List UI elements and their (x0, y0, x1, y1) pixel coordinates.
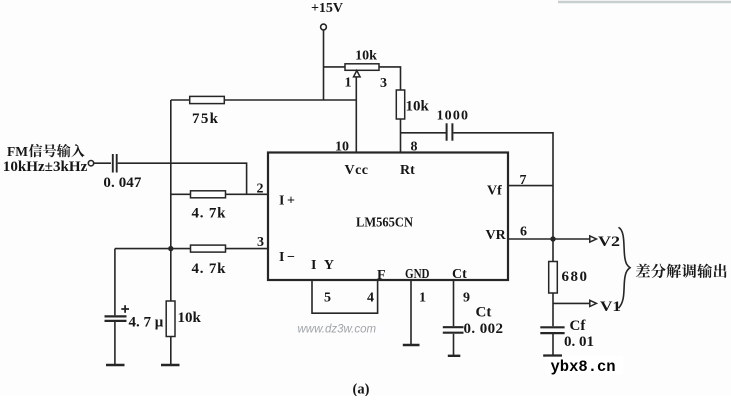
svg-text:4. 7k: 4. 7k (192, 261, 227, 277)
svg-text:Vcc: Vcc (345, 163, 369, 178)
svg-text:V2: V2 (598, 234, 620, 250)
wire pot wiper to pin 10 Vcc (355, 77, 357, 153)
wire bias node to pin 2 (171, 193, 268, 195)
wire rail left of 75k (171, 99, 190, 101)
svg-text:9: 9 (463, 291, 470, 306)
input terminal (88, 161, 93, 166)
wire R2 to pin 8 Rt (400, 119, 402, 153)
potentiometer RP wiper arrow (354, 71, 361, 77)
arrow V2 (590, 236, 597, 242)
resistor R6 680 body (549, 262, 558, 294)
node junction bias/pin3 (168, 246, 173, 251)
wire +15V to pot pin1 (324, 66, 346, 68)
ground (C4) (543, 354, 562, 356)
svg-text:Ct: Ct (476, 305, 492, 321)
capacitor C3 Ct plates (443, 327, 464, 333)
ground (C5) (106, 364, 125, 366)
svg-text:1: 1 (419, 291, 426, 306)
wire pin8 node to C2 (401, 132, 447, 134)
svg-text:0. 047: 0. 047 (103, 175, 141, 191)
resistor R1 75k body (190, 96, 225, 103)
svg-text:0. 01: 0. 01 (564, 334, 594, 350)
capacitor C4 Cf plates (540, 327, 564, 333)
wire R6 to V1 node (552, 293, 554, 326)
svg-text:10: 10 (335, 140, 349, 155)
svg-text:1000: 1000 (437, 109, 469, 124)
svg-text:3: 3 (380, 76, 387, 91)
wire pin6 node to R6 (552, 239, 554, 262)
svg-text:5: 5 (324, 291, 331, 306)
op-amp/PLL U1 LM565CN body (268, 153, 508, 281)
+15V terminal (321, 24, 327, 30)
svg-text:8: 8 (411, 140, 418, 155)
wire pin5-pin4 strap (312, 280, 378, 313)
ground (C3) (448, 355, 461, 357)
wire +15V rail to wiper node (224, 99, 356, 101)
svg-text:75k: 75k (192, 111, 219, 127)
svg-text:Vf: Vf (487, 184, 502, 199)
wire bias vertical line (170, 100, 172, 301)
capacitor C2 1000 plates (447, 123, 453, 140)
wire pin3 node down to C5 (114, 249, 116, 316)
svg-text:1: 1 (345, 76, 352, 91)
svg-text:Cf: Cf (570, 318, 587, 334)
page border artifact top-right (558, 1, 731, 3)
svg-text:I−: I− (279, 250, 295, 265)
svg-text:10k: 10k (406, 99, 430, 115)
svg-text:10k: 10k (355, 49, 377, 64)
svg-text:VR: VR (486, 228, 507, 243)
wire V1 branch (553, 302, 590, 304)
svg-text:6: 6 (520, 225, 527, 240)
node junction pin6 (550, 236, 555, 241)
svg-text:3: 3 (257, 235, 264, 250)
svg-text:ybx8.cn: ybx8.cn (551, 358, 616, 376)
svg-text:4. 7k: 4. 7k (192, 206, 227, 222)
svg-text:10kHz±3kHz: 10kHz±3kHz (3, 159, 88, 175)
wire C4 to ground (552, 334, 554, 355)
wire C5 to ground (114, 322, 116, 365)
wire pin9 to C3 (453, 280, 455, 326)
capacitor C1 0.047 plates (113, 154, 117, 173)
wire C1 to pin 2 elbow (118, 163, 247, 194)
svg-text:(a): (a) (353, 382, 370, 397)
watermark ybx8.cn (545, 357, 623, 376)
svg-text:680: 680 (562, 269, 588, 285)
ground (pin1) (403, 344, 420, 346)
label 差分解调输出 (636, 264, 727, 278)
wire C2 to Vf column (453, 133, 553, 239)
FM input label line1 (7, 144, 85, 159)
svg-text:FM: FM (7, 144, 28, 159)
resistor R2 10k body (396, 90, 404, 119)
potentiometer RP 10k body (345, 64, 379, 71)
resistor R5 10k body (166, 301, 175, 337)
capacitor C5 4.7u plates (105, 316, 127, 321)
svg-text:Ct: Ct (452, 267, 467, 282)
resistor R4 4.7k body (191, 245, 226, 252)
arrow V1 (590, 300, 597, 306)
wire pin6 VR to V2 (508, 238, 590, 240)
wire R5 to ground (170, 337, 172, 365)
svg-text:GND: GND (405, 266, 430, 281)
ground (R5) (161, 364, 180, 366)
wire pin7 Vf to column (508, 185, 553, 187)
svg-text:Rt: Rt (400, 163, 415, 178)
svg-text:10k: 10k (178, 310, 202, 326)
svg-text:LM565CN: LM565CN (356, 216, 413, 231)
brace differential outputs (619, 227, 631, 308)
wire pot pin3 to R2 (379, 67, 401, 90)
svg-text:www.dz3w.com: www.dz3w.com (298, 324, 377, 336)
svg-text:2: 2 (257, 182, 264, 197)
wire +15V down (323, 30, 325, 100)
wire input to C1 (94, 162, 111, 164)
svg-text:4: 4 (367, 291, 374, 306)
svg-text:0. 002: 0. 002 (464, 321, 504, 337)
svg-text:V1: V1 (600, 299, 621, 315)
wire pin1 GND down (410, 280, 412, 345)
wire C3 to ground (453, 334, 455, 355)
svg-text:+15V: +15V (311, 1, 343, 16)
wire bias node to pin 3 (115, 248, 268, 250)
svg-text:I+: I+ (279, 194, 295, 209)
capacitor C5 polarity + (121, 305, 129, 313)
svg-text:4. 7 μ: 4. 7 μ (129, 315, 164, 331)
resistor R3 4.7k body (191, 191, 226, 198)
